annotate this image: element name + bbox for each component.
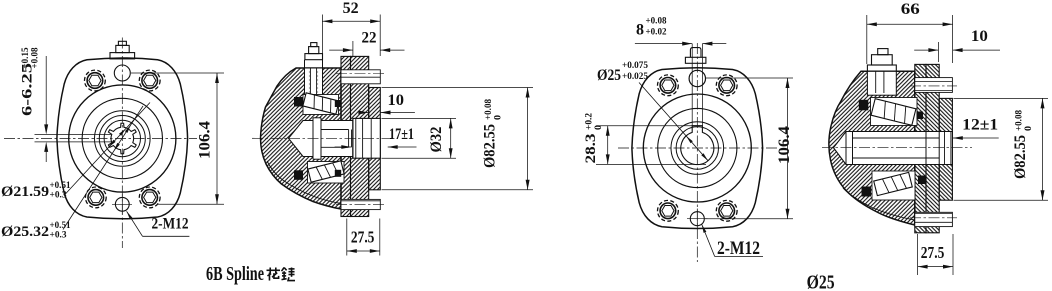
svg-text:22: 22 (362, 30, 377, 47)
svg-text:27.5: 27.5 (351, 228, 375, 247)
svg-text:17±1: 17±1 (389, 126, 414, 143)
svg-text:12±1: 12±1 (962, 117, 998, 134)
svg-text:Ø25.32: Ø25.32 (1, 224, 49, 240)
svg-text:2-M12: 2-M12 (152, 216, 189, 233)
svg-text:+0.51: +0.51 (50, 221, 71, 231)
svg-text:Ø82.55: Ø82.55 (482, 124, 499, 168)
svg-text:Ø21.59: Ø21.59 (1, 184, 49, 200)
svg-text:+0.02: +0.02 (646, 28, 667, 38)
svg-text:0: 0 (594, 125, 604, 130)
svg-text:52: 52 (343, 0, 359, 17)
svg-text:+0.08: +0.08 (31, 47, 41, 68)
svg-text:+0.3: +0.3 (50, 231, 67, 241)
svg-text:8: 8 (636, 22, 644, 39)
svg-text:+0.51: +0.51 (50, 181, 71, 191)
svg-text:Ø32: Ø32 (428, 126, 445, 152)
svg-text:66: 66 (901, 1, 920, 18)
svg-text:106.4: 106.4 (197, 121, 214, 159)
svg-text:106.4: 106.4 (776, 126, 793, 164)
svg-text:+0.15: +0.15 (21, 47, 31, 68)
svg-text:+0.08: +0.08 (1015, 110, 1025, 131)
svg-text:+0.3: +0.3 (50, 191, 67, 201)
svg-text:Ø25: Ø25 (807, 273, 835, 291)
svg-text:6B Spline: 6B Spline (206, 264, 264, 285)
svg-text:27.5: 27.5 (921, 243, 945, 262)
svg-text:0: 0 (1024, 126, 1034, 131)
svg-text:+0.075: +0.075 (622, 61, 648, 71)
svg-text:Ø25: Ø25 (597, 67, 621, 84)
svg-text:+0.025: +0.025 (622, 72, 648, 82)
svg-text:+0.08: +0.08 (646, 17, 667, 27)
svg-text:10: 10 (971, 28, 988, 45)
svg-text:+0.2: +0.2 (585, 113, 595, 130)
svg-text:6-6.25: 6-6.25 (20, 63, 36, 116)
svg-text:+0.08: +0.08 (484, 99, 494, 120)
svg-text:Ø82.55: Ø82.55 (1012, 135, 1029, 179)
svg-text:10: 10 (388, 92, 405, 109)
svg-text:2-M12: 2-M12 (717, 238, 760, 259)
svg-text:0: 0 (494, 115, 504, 120)
svg-text:28.3: 28.3 (583, 134, 599, 164)
